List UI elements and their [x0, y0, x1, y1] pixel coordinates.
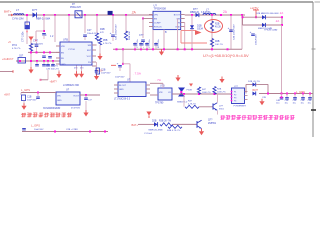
svg-text:100K-7%: 100K-7%: [202, 92, 211, 94]
svg-text:L?: L?: [16, 8, 20, 12]
svg-text:C1B: C1B: [27, 97, 32, 99]
svg-text:.2A: .2A: [275, 19, 279, 23]
svg-text:VOUT: VOUT: [73, 96, 80, 98]
svg-text:10u: 10u: [308, 103, 311, 105]
svg-text:R5B: R5B: [103, 40, 108, 42]
svg-text:EN: EN: [154, 19, 157, 21]
svg-text:+: +: [228, 26, 230, 30]
svg-text:GND: GND: [57, 100, 62, 102]
svg-text:U?B: U?B: [63, 39, 68, 42]
svg-text:100uF/16V: 100uF/16V: [256, 34, 258, 45]
svg-text:C2?: C2?: [87, 29, 92, 32]
svg-text:+ 100n: + 100n: [143, 42, 145, 48]
svg-text:BAT+: BAT+: [132, 123, 139, 127]
svg-text:L7AB5026-7AB: L7AB5026-7AB: [63, 84, 79, 87]
svg-text:. 7A: . 7A: [156, 78, 161, 82]
svg-text:CYT06: CYT06: [68, 49, 76, 51]
svg-text:C2B 100uF/16V: C2B 100uF/16V: [116, 24, 118, 40]
svg-text:VCC: VCC: [87, 56, 92, 58]
svg-text:VIN: VIN: [57, 96, 61, 98]
svg-text:C1 10uF: C1 10uF: [144, 133, 153, 135]
svg-text:D2B .05-7%: D2B .05-7%: [248, 81, 260, 83]
svg-text:XC6204B332MR: XC6204B332MR: [43, 108, 61, 110]
svg-text:+: +: [250, 30, 252, 34]
svg-text:P4: P4: [234, 101, 236, 103]
svg-text:D2B: D2B: [152, 120, 157, 122]
svg-text:R3B 2K-7%: R3B 2K-7%: [159, 120, 171, 122]
svg-text:MBR120: MBR120: [190, 12, 200, 14]
svg-text:R?/4: R?/4: [12, 45, 18, 47]
svg-text:R4B 4.7K-7%: R4B 4.7K-7%: [167, 130, 180, 132]
svg-text:R2B 47K-7%: R2B 47K-7%: [46, 66, 58, 68]
svg-text:10u: 10u: [293, 103, 296, 105]
svg-text:MBR120-SMB: MBR120-SMB: [149, 129, 164, 131]
svg-text:10uF/16V: 10uF/16V: [101, 73, 111, 75]
svg-text:4.7K-7%: 4.7K-7%: [103, 43, 111, 45]
svg-text:U?B: U?B: [160, 85, 165, 88]
svg-text:47uF/16V: 47uF/16V: [71, 107, 81, 109]
svg-text:C2B: C2B: [101, 70, 106, 72]
svg-text:C?? 100n: C?? 100n: [149, 39, 151, 48]
svg-text:. 7.5A: . 7.5A: [133, 72, 141, 76]
svg-text:+BAT: +BAT: [4, 94, 10, 97]
svg-text:IN OUT: IN OUT: [119, 85, 127, 87]
svg-text:COMP: COMP: [154, 23, 161, 25]
svg-text:C4B: C4B: [293, 100, 298, 102]
svg-text:R2B: R2B: [217, 89, 222, 91]
svg-text:10u: 10u: [301, 103, 304, 105]
svg-text:10K-7%: 10K-7%: [215, 44, 223, 46]
svg-text:10u: 10u: [276, 103, 279, 105]
svg-text:PG: PG: [88, 62, 91, 64]
svg-text:C?? 100n: C?? 100n: [22, 31, 25, 42]
svg-text:P3: P3: [234, 98, 236, 100]
svg-text:+FullCh?: +FullCh?: [2, 57, 14, 61]
svg-text:C?/7: C?/7: [33, 41, 39, 43]
svg-text:R?? 100n: R?? 100n: [158, 39, 160, 48]
svg-text:10u: 10u: [285, 103, 288, 105]
svg-text:+: +: [117, 62, 119, 66]
svg-text:CYW-10M: CYW-10M: [12, 18, 23, 21]
svg-text:VIN: VIN: [61, 46, 65, 48]
svg-text:BAT?: BAT?: [253, 89, 259, 92]
svg-text:L_GPS: L_GPS: [21, 88, 30, 92]
svg-text:VO: VO: [168, 92, 171, 94]
svg-text:10uF/16V: 10uF/16V: [27, 100, 37, 102]
svg-text:C4B: C4B: [276, 100, 281, 102]
svg-text:P6KE-6V8: P6KE-6V8: [70, 7, 81, 9]
svg-text:4.7K-7%: 4.7K-7%: [188, 103, 196, 105]
svg-text:BAT+: BAT+: [4, 10, 12, 14]
svg-text:.2A: .2A: [279, 11, 283, 15]
svg-text:Q??: Q??: [208, 120, 213, 122]
svg-text:2N5551: 2N5551: [208, 123, 217, 125]
svg-text:C6?: C6?: [19, 56, 24, 58]
svg-text:RT/CLK: RT/CLK: [154, 27, 162, 29]
svg-text:100nF/200V: 100nF/200V: [32, 43, 44, 45]
svg-text:47K: 47K: [100, 32, 104, 34]
svg-text:U?=(1+68.0/10)*0.9=4.5V: U?=(1+68.0/10)*0.9=4.5V: [203, 53, 249, 58]
svg-text:VIN: VIN: [159, 92, 163, 94]
svg-text:D??: D??: [193, 8, 198, 11]
svg-text:C4B: C4B: [308, 100, 313, 102]
svg-text:C2B 100uF/10V: C2B 100uF/10V: [234, 24, 236, 40]
svg-text:C??: C??: [139, 34, 144, 37]
svg-text:GND: GND: [119, 89, 124, 91]
svg-text:TPS54308: TPS54308: [154, 7, 167, 11]
svg-text:100K-7%: 100K-7%: [217, 91, 226, 93]
svg-text:TPS780: TPS780: [155, 103, 164, 105]
svg-text:BOOT: BOOT: [174, 15, 181, 17]
svg-text:R2B 10K: R2B 10K: [129, 31, 131, 40]
svg-text:40.2K: 40.2K: [215, 27, 221, 29]
svg-text:3.6uH/5A: 3.6uH/5A: [201, 11, 211, 14]
svg-text:MBR-2A-5MA: MBR-2A-5MA: [36, 18, 51, 21]
svg-text:10uF/16V: 10uF/16V: [34, 129, 44, 131]
svg-text:GND: GND: [61, 64, 66, 66]
svg-text:VIN: VIN: [154, 15, 158, 17]
svg-text:D??: D??: [32, 8, 38, 12]
svg-text:10uF/16V: 10uF/16V: [115, 77, 125, 79]
svg-text:C2B: C2B: [262, 97, 267, 99]
svg-text:SW: SW: [88, 45, 91, 47]
svg-text:EN: EN: [61, 52, 64, 54]
svg-text:SMBJT5.0: SMBJT5.0: [177, 101, 188, 103]
svg-text:D2B MBR120 SB-0408: D2B MBR120 SB-0408: [256, 13, 279, 15]
svg-text:POWERKEY: POWERKEY: [234, 106, 247, 108]
svg-text:+: +: [110, 31, 112, 35]
svg-text:C4B: C4B: [301, 100, 306, 102]
svg-text:R2B: R2B: [215, 41, 220, 43]
svg-text:P1: P1: [234, 92, 236, 94]
svg-text:R2B: R2B: [100, 28, 105, 31]
svg-text:C?? 100n: C?? 100n: [137, 39, 139, 48]
svg-text:5551: 5551: [219, 108, 225, 110]
svg-text:C4B: C4B: [285, 100, 290, 102]
svg-text:L_GPS: L_GPS: [31, 124, 40, 128]
svg-text:4.7K-7%: 4.7K-7%: [12, 48, 20, 50]
svg-text:SS34: SS34: [197, 28, 204, 31]
svg-text:P2: P2: [234, 95, 236, 97]
svg-text:MBR120-SMB: MBR120-SMB: [258, 28, 273, 30]
svg-text:PV2B: PV2B: [187, 90, 193, 92]
svg-text:C2B +C2B9: C2B +C2B9: [66, 129, 78, 131]
svg-text:+BAT?: +BAT?: [50, 80, 58, 83]
svg-text:R2B: R2B: [215, 24, 220, 26]
svg-text:LT1763CS8-3.3: LT1763CS8-3.3: [114, 99, 131, 101]
